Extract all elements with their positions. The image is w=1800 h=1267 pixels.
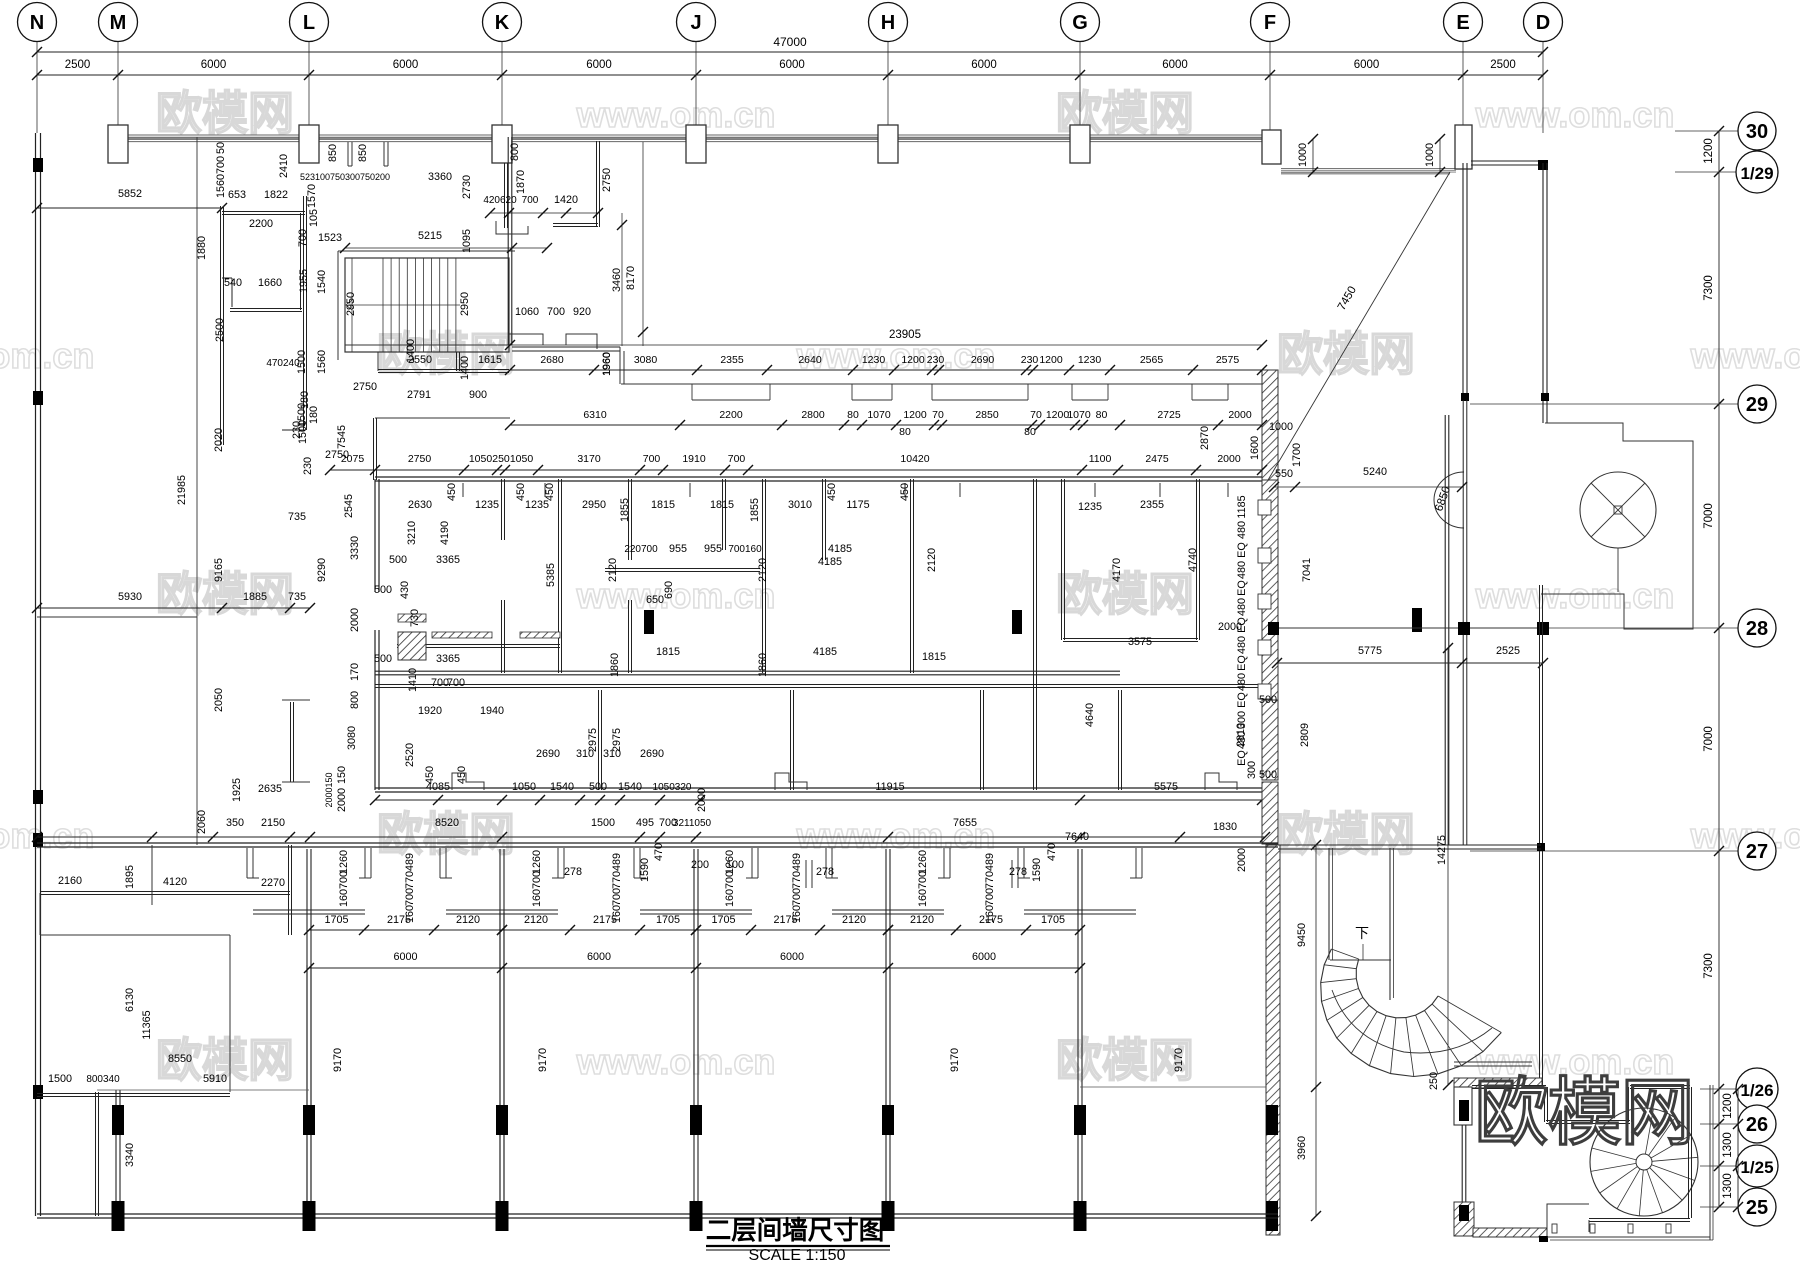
svg-text:1705: 1705 xyxy=(324,914,348,926)
svg-text:6000: 6000 xyxy=(972,951,996,963)
grid bubble 29 xyxy=(1738,385,1776,423)
svg-text:1815: 1815 xyxy=(710,499,734,511)
long vertical x1541 xyxy=(1539,585,1541,1085)
grid line 25 xyxy=(1700,1206,1738,1208)
svg-text:500: 500 xyxy=(1259,769,1277,781)
svg-text:1560: 1560 xyxy=(215,174,227,198)
svg-text:1855: 1855 xyxy=(749,498,761,522)
grid line 27 xyxy=(1470,850,1738,852)
svg-text:80: 80 xyxy=(847,409,859,421)
svg-text:9450: 9450 xyxy=(1296,923,1308,947)
grid bubble F xyxy=(1251,3,1290,42)
svg-text:1860: 1860 xyxy=(757,653,769,677)
svg-text:10420: 10420 xyxy=(900,453,929,465)
svg-text:1955: 1955 xyxy=(298,269,310,293)
svg-text:489: 489 xyxy=(984,853,996,871)
left low wall xyxy=(37,1093,230,1095)
central block outer walls xyxy=(375,476,1262,478)
fan middle arc xyxy=(1332,990,1492,1053)
svg-text:1420: 1420 xyxy=(554,194,578,206)
svg-text:1600: 1600 xyxy=(1249,436,1261,460)
svg-text:3170: 3170 xyxy=(577,453,601,465)
window in strip xyxy=(1258,640,1271,655)
svg-text:2200: 2200 xyxy=(719,409,743,421)
svg-text:230: 230 xyxy=(927,354,945,366)
svg-text:1200: 1200 xyxy=(1703,138,1715,164)
svg-text:2975: 2975 xyxy=(611,728,623,752)
svg-text:3330: 3330 xyxy=(349,536,361,560)
svg-text:730: 730 xyxy=(409,609,421,627)
svg-text:1235: 1235 xyxy=(475,499,499,511)
svg-text:欧模网: 欧模网 xyxy=(1277,328,1415,380)
left bottom room walls xyxy=(40,934,230,936)
svg-text:1660: 1660 xyxy=(258,277,282,289)
svg-text:1615: 1615 xyxy=(478,354,502,366)
F-E wall band xyxy=(1281,168,1456,170)
svg-text:2575: 2575 xyxy=(1216,354,1240,366)
grid bubble L xyxy=(290,3,329,42)
svg-text:1925: 1925 xyxy=(231,778,243,802)
svg-text:430: 430 xyxy=(399,581,411,599)
top dim chain xyxy=(37,74,1543,76)
svg-text:1300: 1300 xyxy=(1722,1132,1734,1158)
svg-text:700: 700 xyxy=(215,156,227,174)
svg-text:6000: 6000 xyxy=(393,59,419,71)
svg-text:5215: 5215 xyxy=(418,230,442,242)
construction line y1090 xyxy=(97,1089,309,1091)
svg-text:489: 489 xyxy=(791,853,803,871)
svg-text:1895: 1895 xyxy=(124,865,136,889)
grid line N xyxy=(36,41,38,133)
svg-text:1830: 1830 xyxy=(1213,821,1237,833)
svg-text:700: 700 xyxy=(338,871,350,889)
svg-text:2500: 2500 xyxy=(1490,59,1516,71)
window in strip xyxy=(1258,594,1271,609)
svg-text:700: 700 xyxy=(984,888,996,906)
svg-text:470: 470 xyxy=(653,843,665,861)
column at grid x=1080 xyxy=(1070,125,1090,163)
svg-text:6000: 6000 xyxy=(586,59,612,71)
svg-text:K: K xyxy=(495,12,510,34)
second wall below E xyxy=(1462,400,1464,845)
svg-text:1560: 1560 xyxy=(316,350,328,374)
svg-text:1540: 1540 xyxy=(316,270,328,294)
svg-text:700: 700 xyxy=(547,306,565,318)
svg-text:2120: 2120 xyxy=(910,914,934,926)
svg-text:550: 550 xyxy=(1275,468,1293,480)
svg-text:www.om.cn: www.om.cn xyxy=(576,1041,776,1082)
svg-text:1700: 1700 xyxy=(1291,443,1303,467)
svg-text:920: 920 xyxy=(573,306,591,318)
svg-text:2630: 2630 xyxy=(408,499,432,511)
svg-text:G: G xyxy=(1072,12,1088,34)
svg-text:7640: 7640 xyxy=(1065,831,1089,843)
svg-text:2150: 2150 xyxy=(261,817,285,829)
svg-text:450: 450 xyxy=(899,483,911,501)
svg-text:欧模网: 欧模网 xyxy=(156,568,294,620)
grid bubble 27 xyxy=(1738,832,1776,870)
svg-text:1260: 1260 xyxy=(917,850,929,874)
svg-text:70: 70 xyxy=(1030,409,1042,421)
svg-text:5910: 5910 xyxy=(203,1073,227,1085)
small rooms x292 xyxy=(282,699,310,701)
svg-text:9170: 9170 xyxy=(332,1048,344,1072)
svg-text:800: 800 xyxy=(349,691,361,709)
svg-text:700: 700 xyxy=(447,677,465,689)
grid line 1/25 xyxy=(1700,1165,1736,1167)
dim 5930 row xyxy=(37,607,310,609)
svg-text:8520: 8520 xyxy=(435,817,459,829)
svg-text:L: L xyxy=(303,12,315,34)
svg-text:450: 450 xyxy=(826,483,838,501)
staircase top-left xyxy=(345,258,509,352)
svg-text:500: 500 xyxy=(1259,694,1277,706)
svg-text:7000: 7000 xyxy=(1703,726,1715,752)
grid line D xyxy=(1542,41,1544,133)
fan outer edge xyxy=(1321,949,1502,1077)
svg-text:2750: 2750 xyxy=(353,381,377,393)
dim line row 800 xyxy=(375,799,1262,801)
svg-text:1815: 1815 xyxy=(922,651,946,663)
column at grid F xyxy=(1262,130,1281,164)
shop front at 888 xyxy=(831,848,833,878)
svg-text:1815: 1815 xyxy=(656,646,680,658)
door stubs on top wall xyxy=(462,483,464,497)
svg-text:3960: 3960 xyxy=(1296,1136,1308,1160)
svg-text:1910: 1910 xyxy=(682,453,706,465)
svg-text:470: 470 xyxy=(1046,843,1058,861)
svg-text:1815: 1815 xyxy=(651,499,675,511)
svg-text:7545: 7545 xyxy=(336,425,348,449)
svg-text:1230: 1230 xyxy=(862,354,886,366)
door bumps bottom wall xyxy=(452,773,484,790)
svg-text:489: 489 xyxy=(611,853,623,871)
grid line M xyxy=(117,41,119,133)
svg-text:160: 160 xyxy=(917,889,929,907)
svg-text:9165: 9165 xyxy=(213,558,225,582)
vertical reference lines x=622,643 xyxy=(621,213,623,346)
svg-text:480: 480 xyxy=(1236,521,1248,539)
svg-text:14275: 14275 xyxy=(1436,835,1448,865)
svg-text:850: 850 xyxy=(357,144,369,162)
svg-text:2545: 2545 xyxy=(343,494,355,518)
svg-text:770: 770 xyxy=(404,871,416,889)
svg-text:480: 480 xyxy=(1236,636,1248,654)
svg-text:230: 230 xyxy=(291,421,303,439)
svg-text:1540: 1540 xyxy=(550,781,574,793)
left inner vertical wall x=197 xyxy=(196,137,198,845)
svg-text:80: 80 xyxy=(1096,409,1108,421)
svg-text:2750: 2750 xyxy=(325,449,349,461)
svg-text:2635: 2635 xyxy=(258,783,282,795)
svg-text:450: 450 xyxy=(456,766,468,784)
svg-text:8550: 8550 xyxy=(168,1053,192,1065)
svg-text:2725: 2725 xyxy=(1157,409,1181,421)
wall tick left xyxy=(33,790,43,804)
svg-text:2000150: 2000150 xyxy=(324,772,334,807)
svg-text:30: 30 xyxy=(1746,121,1768,143)
svg-text:1050: 1050 xyxy=(512,781,536,793)
svg-text:6000: 6000 xyxy=(587,951,611,963)
svg-text:50: 50 xyxy=(215,142,227,154)
svg-text:3360: 3360 xyxy=(428,171,452,183)
svg-text:3080: 3080 xyxy=(634,354,658,366)
column at grid x=118 xyxy=(108,125,128,163)
hatch top wall xyxy=(1454,1078,1542,1088)
grid bubble 28 xyxy=(1738,609,1776,647)
5775/2525 dim line xyxy=(1277,662,1543,664)
wall tick left xyxy=(33,391,43,405)
right lower dim line xyxy=(1737,1089,1739,1207)
svg-text:2800: 2800 xyxy=(801,409,825,421)
svg-text:H: H xyxy=(881,12,895,34)
svg-text:2050: 2050 xyxy=(213,688,225,712)
svg-text:1885: 1885 xyxy=(243,591,267,603)
svg-text:250: 250 xyxy=(1428,1072,1440,1090)
corridor upper wall xyxy=(621,383,1262,385)
svg-text:150: 150 xyxy=(336,766,348,784)
svg-text:4740: 4740 xyxy=(1187,548,1199,572)
grid bubble 1/25 xyxy=(1736,1145,1778,1187)
svg-text:4185: 4185 xyxy=(818,556,842,568)
central block inner walls upper xyxy=(501,479,503,540)
shop front at 1080 xyxy=(1023,848,1025,878)
shop side stubs xyxy=(805,860,807,888)
svg-text:350: 350 xyxy=(226,817,244,829)
left exterior wall xyxy=(35,133,37,1216)
svg-text:3365: 3365 xyxy=(436,554,460,566)
svg-text:9170: 9170 xyxy=(1173,1048,1185,1072)
grid line F xyxy=(1269,41,1271,133)
window in strip xyxy=(1258,548,1271,563)
svg-text:11915: 11915 xyxy=(875,781,904,793)
svg-text:5852: 5852 xyxy=(118,188,142,200)
lower room divider x=1120 xyxy=(1118,690,1120,790)
svg-text:735: 735 xyxy=(288,591,306,603)
svg-text:1100: 1100 xyxy=(1089,453,1112,465)
svg-text:F: F xyxy=(1264,12,1276,34)
svg-text:2500: 2500 xyxy=(65,59,91,71)
svg-text:2809: 2809 xyxy=(1299,723,1311,747)
svg-text:105: 105 xyxy=(308,209,320,227)
wall x97 bottom left xyxy=(95,1092,97,1216)
grid line 1/26 xyxy=(1700,1088,1736,1090)
svg-text:1705: 1705 xyxy=(711,914,735,926)
svg-text:1/26: 1/26 xyxy=(1740,1081,1773,1100)
svg-text:8170: 8170 xyxy=(625,266,637,290)
grid bubble 30 xyxy=(1738,112,1776,150)
svg-text:1185: 1185 xyxy=(1236,495,1248,518)
svg-text:5575: 5575 xyxy=(1154,781,1178,793)
svg-text:1260: 1260 xyxy=(724,850,736,874)
svg-text:2520: 2520 xyxy=(404,743,416,767)
svg-text:1400: 1400 xyxy=(405,339,417,363)
svg-text:1590: 1590 xyxy=(1031,858,1043,882)
svg-text:4640: 4640 xyxy=(1084,703,1096,727)
lower room divider x=600 xyxy=(598,690,600,790)
svg-text:1000: 1000 xyxy=(1424,143,1436,167)
svg-text:2000: 2000 xyxy=(336,788,348,812)
svg-text:700: 700 xyxy=(522,195,539,206)
svg-text:160: 160 xyxy=(791,905,803,923)
wall right of stair x510 xyxy=(507,137,509,345)
svg-text:700: 700 xyxy=(297,229,309,247)
dim 5852 xyxy=(37,207,222,209)
hatched block xyxy=(398,632,426,660)
svg-text:EQ: EQ xyxy=(1236,542,1248,558)
svg-text:6000: 6000 xyxy=(201,59,227,71)
svg-text:2120: 2120 xyxy=(926,548,938,572)
lower room divider x=792 xyxy=(790,690,792,790)
stair outer walls xyxy=(338,250,515,252)
grid bubble H xyxy=(869,3,908,42)
row 23905 chain xyxy=(510,369,1262,371)
svg-text:2000: 2000 xyxy=(1217,453,1241,465)
svg-text:480: 480 xyxy=(1236,561,1248,579)
svg-text:1070: 1070 xyxy=(867,409,891,421)
svg-text:500: 500 xyxy=(389,554,407,566)
svg-text:下: 下 xyxy=(1355,925,1369,941)
svg-text:2850: 2850 xyxy=(975,409,999,421)
right wing stepped boundary xyxy=(1541,423,1693,629)
svg-text:955: 955 xyxy=(704,543,722,555)
svg-text:1070: 1070 xyxy=(1067,409,1091,421)
svg-text:2680: 2680 xyxy=(540,354,564,366)
svg-text:N: N xyxy=(30,12,44,34)
5240 dim line xyxy=(1274,486,1462,488)
svg-text:6000: 6000 xyxy=(1162,59,1188,71)
svg-text:SCALE 1:150: SCALE 1:150 xyxy=(749,1247,846,1262)
svg-text:2870: 2870 xyxy=(1199,426,1211,450)
svg-text:3211050: 3211050 xyxy=(673,818,712,829)
grid line G xyxy=(1079,41,1081,133)
corridor left wall y=349 xyxy=(512,346,620,348)
svg-text:1590: 1590 xyxy=(639,858,651,882)
svg-text:2000: 2000 xyxy=(1218,621,1242,633)
svg-text:1050: 1050 xyxy=(469,453,493,465)
svg-text:160: 160 xyxy=(611,905,623,923)
wall y617 left xyxy=(37,616,197,618)
svg-text:160: 160 xyxy=(338,889,350,907)
svg-text:7655: 7655 xyxy=(953,817,977,829)
svg-text:2060: 2060 xyxy=(196,810,208,834)
svg-text:160: 160 xyxy=(724,889,736,907)
grid bubble 1/29 xyxy=(1736,151,1778,193)
svg-text:2975: 2975 xyxy=(587,728,599,752)
14275 dim line xyxy=(1447,648,1449,1085)
svg-text:650: 650 xyxy=(646,594,664,606)
svg-text:欧模网: 欧模网 xyxy=(1056,568,1194,620)
svg-text:700: 700 xyxy=(643,453,661,465)
svg-text:653: 653 xyxy=(228,189,246,201)
svg-text:2730: 2730 xyxy=(461,175,473,199)
left low rooms xyxy=(40,891,290,893)
svg-text:6000: 6000 xyxy=(780,951,804,963)
svg-text:www.om.cn: www.om.cn xyxy=(0,335,94,376)
svg-text:1000: 1000 xyxy=(1269,421,1293,433)
svg-text:495: 495 xyxy=(636,817,654,829)
svg-text:800340: 800340 xyxy=(86,1074,120,1085)
column in strip low xyxy=(1266,1201,1278,1231)
svg-text:D: D xyxy=(1536,12,1550,34)
svg-text:9170: 9170 xyxy=(537,1048,549,1072)
svg-text:2690: 2690 xyxy=(536,748,560,760)
svg-text:1200: 1200 xyxy=(903,409,927,421)
bottom boundary xyxy=(37,1213,1278,1215)
svg-text:EQ: EQ xyxy=(1236,692,1248,708)
small black columns central xyxy=(644,610,654,634)
svg-text:26: 26 xyxy=(1746,1114,1768,1136)
svg-text:27: 27 xyxy=(1746,841,1768,863)
svg-text:欧模网: 欧模网 xyxy=(1475,1071,1694,1154)
svg-text:2810: 2810 xyxy=(1235,723,1247,747)
svg-text:2160: 2160 xyxy=(58,875,82,887)
svg-text:7041: 7041 xyxy=(1301,558,1313,582)
dim line above shops y=837 xyxy=(37,836,1265,838)
fan inner edge xyxy=(1356,959,1438,1018)
wall y628 xyxy=(1278,627,1545,629)
svg-text:800: 800 xyxy=(509,143,521,161)
svg-text:2000: 2000 xyxy=(349,608,361,632)
svg-text:3080: 3080 xyxy=(346,726,358,750)
svg-text:7000: 7000 xyxy=(1703,503,1715,529)
grid bubble E xyxy=(1444,3,1483,42)
svg-text:700: 700 xyxy=(791,888,803,906)
room outline xyxy=(1472,1085,1546,1087)
svg-text:2120: 2120 xyxy=(456,914,480,926)
svg-text:2120: 2120 xyxy=(607,558,619,582)
svg-text:1050: 1050 xyxy=(510,453,534,465)
svg-text:www.om.cn: www.om.cn xyxy=(1690,335,1800,376)
svg-text:2410: 2410 xyxy=(278,154,290,178)
svg-text:700: 700 xyxy=(404,888,416,906)
svg-text:www.om.cn: www.om.cn xyxy=(1475,94,1675,135)
grid line 29 xyxy=(1470,403,1738,405)
svg-text:9170: 9170 xyxy=(949,1048,961,1072)
watermark layer xyxy=(0,87,1800,1086)
svg-text:489: 489 xyxy=(404,853,416,871)
diagonal line xyxy=(1268,172,1450,480)
hatched wall strip x=1270 xyxy=(1262,370,1278,480)
svg-text:2690: 2690 xyxy=(640,748,664,760)
wall tick left xyxy=(33,833,43,847)
svg-text:700: 700 xyxy=(724,871,736,889)
svg-text:1060: 1060 xyxy=(515,306,539,318)
svg-text:1300: 1300 xyxy=(1722,1173,1734,1199)
svg-text:二层间墙尺寸图: 二层间墙尺寸图 xyxy=(706,1217,885,1245)
svg-text:5240: 5240 xyxy=(1363,466,1387,478)
right wing verticals xyxy=(1462,163,1464,400)
svg-text:EQ: EQ xyxy=(1236,655,1248,671)
svg-text:1540: 1540 xyxy=(618,781,642,793)
svg-text:2500: 2500 xyxy=(214,318,226,342)
window in strip xyxy=(1258,500,1271,515)
shop front at 696 xyxy=(639,848,641,878)
svg-text:1/29: 1/29 xyxy=(1740,164,1773,183)
grid bubble N xyxy=(18,3,57,42)
svg-text:900: 900 xyxy=(469,389,487,401)
svg-text:70: 70 xyxy=(932,409,944,421)
svg-text:欧模网: 欧模网 xyxy=(1277,808,1415,860)
svg-text:29: 29 xyxy=(1746,394,1768,416)
svg-text:1880: 1880 xyxy=(196,236,208,260)
grid bubble G xyxy=(1061,3,1100,42)
grid line 26 xyxy=(1700,1123,1738,1125)
svg-text:7300: 7300 xyxy=(1703,275,1715,301)
svg-text:1940: 1940 xyxy=(480,705,504,717)
spiral stair circle xyxy=(1590,1108,1698,1216)
svg-text:2000: 2000 xyxy=(696,788,708,812)
